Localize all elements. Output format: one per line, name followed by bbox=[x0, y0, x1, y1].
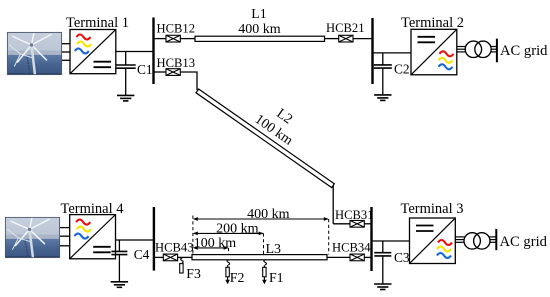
wire: L1 to HCB21 bbox=[325, 38, 339, 40]
wire: HCB34 to bus 3 bbox=[364, 256, 371, 258]
wire: transformer to AC grid bar (3 lines) bbox=[490, 237, 497, 242]
arrow below F1 bbox=[262, 277, 267, 285]
arrow 200 km bbox=[193, 232, 264, 236]
wire: HCB43 to L3 bbox=[178, 256, 192, 258]
svg-text:HCB21: HCB21 bbox=[326, 21, 365, 35]
svg-text:C3: C3 bbox=[394, 250, 410, 265]
breaker HCB31 bbox=[350, 220, 364, 227]
cable L3 bbox=[192, 255, 327, 260]
svg-text:L3: L3 bbox=[266, 242, 282, 257]
svg-text:HCB43: HCB43 bbox=[155, 241, 194, 255]
transformer T3 bbox=[464, 233, 490, 249]
svg-text:HCB34: HCB34 bbox=[332, 241, 371, 255]
dashed line at 400 km point (below HCB31 drop) bbox=[328, 219, 330, 255]
wire: converter 1 to bus 1 bbox=[116, 51, 154, 53]
dashed tick at 100 km point (F2) bbox=[228, 248, 230, 255]
svg-text:Terminal 1: Terminal 1 bbox=[66, 15, 129, 31]
wire: HCB12 to L1 bbox=[180, 38, 195, 40]
dashed line at L3 start bbox=[192, 216, 194, 255]
wire: converter 3 to transformer (3 lines) bbox=[455, 237, 464, 242]
wire: converter 4 to bus 4 bbox=[116, 239, 154, 241]
svg-text:HCB31: HCB31 bbox=[335, 208, 374, 222]
breaker HCB12 bbox=[166, 35, 180, 42]
cable L1 (400 km) bbox=[195, 36, 325, 41]
svg-text:Terminal 4: Terminal 4 bbox=[60, 201, 124, 217]
wire: transformer to AC grid bar (3 lines) bbox=[491, 47, 497, 52]
wire: HCB13 right then down to L2 bbox=[180, 72, 197, 90]
svg-text:C2: C2 bbox=[394, 62, 410, 77]
wire: L2 down to HCB31 bbox=[332, 186, 334, 224]
wire: bus1 to HCB13 bbox=[154, 71, 167, 73]
converter U2 (VSC terminal 2) bbox=[411, 29, 457, 75]
wire: converter 2 to transformer (3 lines) bbox=[457, 47, 466, 52]
svg-text:200 km: 200 km bbox=[216, 222, 259, 237]
wire: bus1 to HCB12 bbox=[154, 38, 167, 40]
fault F1 bbox=[263, 260, 267, 277]
svg-text:L1: L1 bbox=[251, 7, 267, 22]
converter U4 (VSC terminal 4) bbox=[70, 215, 116, 259]
wire: bus3 to converter 3 bbox=[372, 240, 410, 242]
bus bar 1 (node bus1) bbox=[152, 18, 154, 85]
ground (below C3) bbox=[374, 284, 391, 290]
wire: HCB31 to bus 3 bbox=[364, 223, 371, 225]
breaker HCB43 bbox=[163, 254, 177, 261]
capacitor C3 bbox=[374, 241, 391, 284]
wire: photo to converter 4 (3 lines) bbox=[60, 228, 70, 246]
bus bar 3 (node bus3) bbox=[370, 207, 372, 271]
svg-text:F1: F1 bbox=[269, 270, 284, 285]
arrow below F2 bbox=[225, 277, 230, 285]
wire: HCB21 to bus 2 bbox=[353, 38, 373, 40]
ground (below C4) bbox=[111, 282, 128, 288]
fault F2 bbox=[226, 260, 230, 277]
bus bar 4 (node bus4) bbox=[153, 207, 155, 271]
fault F3 bbox=[180, 258, 184, 273]
svg-text:100 km: 100 km bbox=[194, 236, 237, 251]
svg-text:C1: C1 bbox=[137, 62, 153, 77]
wire: photo to converter 1 (3 lines) bbox=[62, 44, 70, 61]
svg-text:F2: F2 bbox=[230, 270, 245, 285]
wire: L3 to HCB34 bbox=[327, 256, 350, 258]
wire: L2 drop to HCB31 bbox=[333, 223, 350, 225]
ground (below C1) bbox=[117, 95, 134, 101]
breaker HCB21 bbox=[339, 35, 353, 42]
converter U3 (VSC terminal 3) bbox=[410, 218, 456, 264]
arrow 100 km bbox=[193, 246, 229, 250]
dashed line at 200 km point (F1) bbox=[263, 233, 265, 254]
svg-text:400 km: 400 km bbox=[247, 207, 290, 222]
cable L2 (100 km, diagonal) bbox=[196, 89, 334, 188]
bus bar 2 (node bus2) bbox=[371, 18, 373, 84]
breaker HCB34 bbox=[350, 254, 364, 261]
wire: bus4 to HCB43 bbox=[154, 256, 163, 258]
svg-text:HCB12: HCB12 bbox=[157, 21, 196, 35]
transformer T2 bbox=[465, 41, 491, 57]
capacitor C1 bbox=[116, 52, 136, 96]
svg-text:AC grid: AC grid bbox=[500, 43, 548, 59]
node AC grid 3 (bar) bbox=[495, 229, 497, 250]
capacitor C2 bbox=[374, 53, 392, 95]
node AC grid 2 (bar) bbox=[496, 39, 498, 63]
wind farm photo (terminal 1 source) bbox=[7, 32, 62, 75]
converter U1 (VSC terminal 1) bbox=[70, 30, 116, 74]
svg-text:C4: C4 bbox=[134, 247, 150, 262]
svg-text:F3: F3 bbox=[186, 266, 201, 281]
svg-text:Terminal 3: Terminal 3 bbox=[400, 201, 463, 217]
ground (below C2) bbox=[374, 95, 391, 101]
svg-text:Terminal 2: Terminal 2 bbox=[401, 15, 464, 31]
capacitor C4 bbox=[111, 240, 127, 282]
svg-text:HCB13: HCB13 bbox=[157, 56, 196, 70]
wire: bus2 to converter 2 bbox=[373, 52, 412, 54]
wind farm photo (terminal 4 source) bbox=[5, 217, 60, 258]
svg-text:400 km: 400 km bbox=[238, 22, 281, 37]
arrow 400 km bbox=[193, 217, 329, 221]
breaker HCB13 bbox=[166, 69, 180, 76]
svg-text:AC grid: AC grid bbox=[500, 234, 548, 250]
